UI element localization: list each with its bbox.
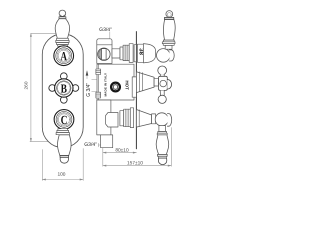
knob C bbox=[54, 110, 74, 130]
B cross handle (side): top ball bbox=[158, 66, 167, 75]
A chain: ribs bbox=[123, 44, 136, 63]
B mounting tab lower bbox=[96, 92, 101, 98]
svg-text:100: 100 bbox=[57, 172, 65, 178]
C hub cap bbox=[167, 114, 171, 127]
lever A handle (front, up) bbox=[55, 10, 69, 38]
svg-text:A: A bbox=[60, 49, 67, 63]
dimension 100 bbox=[42, 149, 83, 181]
svg-text:MADE IN ITALY: MADE IN ITALY bbox=[104, 72, 108, 96]
B cross: bottom stem bbox=[160, 90, 164, 95]
B cone (right of wall) bbox=[136, 72, 154, 93]
knob A bbox=[54, 46, 74, 66]
lever A collar bbox=[56, 38, 69, 46]
svg-text:G3/4": G3/4" bbox=[99, 27, 112, 33]
dimension 260 vertical line bbox=[30, 33, 64, 141]
C lever finial (side) bbox=[158, 158, 166, 165]
wall line bbox=[135, 32, 137, 149]
C nut bbox=[106, 113, 118, 128]
B cross: bottom ball bbox=[158, 95, 166, 103]
svg-text:80±10: 80±10 bbox=[115, 148, 129, 154]
top outlet stub bbox=[97, 39, 112, 45]
bottom outlet stub bbox=[101, 135, 113, 148]
svg-text:G 3/4": G 3/4" bbox=[86, 83, 92, 97]
A lever ball top bbox=[166, 11, 173, 18]
plate (stadium) bbox=[42, 34, 83, 148]
C flange bbox=[120, 111, 124, 126]
dimension 260 arrows bbox=[30, 33, 32, 141]
label G3/4 (top) with leader bbox=[99, 27, 112, 39]
label G3/4 (bottom) bbox=[84, 142, 100, 148]
label G 3/4 (mid, rotated) bbox=[86, 70, 97, 97]
B flange at wall bbox=[132, 77, 136, 97]
B neck bbox=[154, 78, 158, 86]
svg-text:260: 260 bbox=[23, 81, 29, 89]
B cross: top stem bbox=[160, 74, 164, 76]
C lever shaft (side, down) bbox=[156, 135, 169, 155]
front view group bbox=[23, 10, 175, 180]
svg-text:38: 38 bbox=[137, 48, 143, 55]
A hub ball bbox=[157, 49, 171, 63]
A chain: neck bbox=[112, 49, 120, 58]
lever C handle (front, down) bbox=[58, 135, 72, 163]
B cross: front arm circle bbox=[160, 80, 167, 87]
A chain: bell bbox=[143, 44, 155, 63]
svg-text:HOT: HOT bbox=[124, 81, 129, 91]
C neck bbox=[152, 114, 156, 124]
B cross: right bulge bbox=[167, 80, 171, 89]
C ribs bbox=[124, 108, 134, 128]
C lever ferrule (side) bbox=[158, 154, 168, 156]
body block C bbox=[97, 100, 111, 135]
svg-text:C: C bbox=[61, 113, 68, 127]
knob B cross handle lobes bbox=[49, 73, 79, 103]
svg-text:G3/4": G3/4" bbox=[84, 142, 97, 148]
body block A bbox=[97, 45, 112, 64]
port circle A with slot bbox=[98, 48, 110, 60]
A lever neck (side) bbox=[165, 45, 172, 49]
A lever shaft (side, up) bbox=[163, 19, 175, 40]
A lever collar (side) bbox=[162, 40, 175, 45]
C cone (right of wall) bbox=[136, 110, 151, 128]
C hub ball bbox=[155, 113, 168, 126]
B mounting tab upper bbox=[96, 69, 101, 75]
dimension 80±10 bbox=[103, 148, 137, 166]
A chain: flange bbox=[120, 47, 123, 60]
A chain: knurled ring with 38 mark bbox=[137, 44, 143, 62]
A hub cap bbox=[169, 50, 174, 61]
C lever neck (side) bbox=[159, 126, 166, 132]
body block B bbox=[97, 64, 134, 100]
C lever collar rings (side) bbox=[157, 132, 167, 135]
knob B bbox=[55, 79, 73, 97]
lever C collar bbox=[56, 129, 69, 135]
B cross hub bbox=[159, 76, 168, 90]
port circle B (hot inlet) bbox=[111, 83, 120, 92]
svg-text:157±10: 157±10 bbox=[127, 160, 143, 166]
A lever ferrule bbox=[164, 18, 173, 20]
dimension 157±10 bbox=[103, 128, 172, 167]
svg-text:B: B bbox=[61, 81, 67, 95]
